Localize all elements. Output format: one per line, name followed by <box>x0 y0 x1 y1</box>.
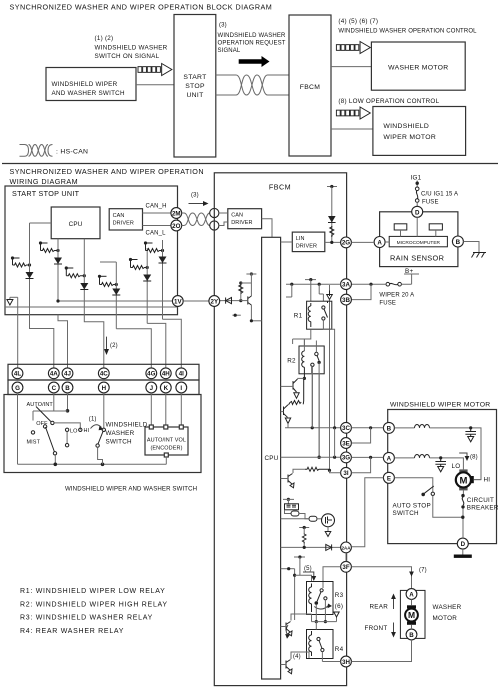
wire cell F jog to 4I <box>163 319 182 367</box>
transistor Q3 <box>281 405 291 428</box>
pin A <box>374 237 385 248</box>
svg-text:G: G <box>15 385 20 392</box>
wire CPU pin to cell A <box>30 222 52 224</box>
connector pin 3E <box>341 438 352 449</box>
washer switch curved arrow <box>91 425 102 429</box>
svg-text:UNIT: UNIT <box>186 92 203 99</box>
svg-text:FRONT: FRONT <box>365 625 388 632</box>
svg-text:B: B <box>409 632 414 639</box>
pin B <box>62 382 73 393</box>
svg-text:START: START <box>183 74 206 81</box>
block FBCM <box>289 15 331 156</box>
wire FBCM to windshield wiper motor <box>331 128 373 130</box>
actuation arrow R4 <box>336 616 338 622</box>
R1 feed rails <box>286 283 341 285</box>
twisted pair 2M/2O to FBCM <box>182 213 210 226</box>
connector pin 3I <box>341 467 352 478</box>
wiper switch node dot <box>66 409 70 413</box>
svg-text:WINDSHIELD WASHER: WINDSHIELD WASHER <box>95 45 168 52</box>
wire 3C to B <box>351 427 383 429</box>
connector pin 3B <box>341 294 352 305</box>
vertical 3C-3G link <box>334 428 336 457</box>
connector pin 3F <box>341 561 352 572</box>
wire D to microcomputer <box>416 217 418 236</box>
block start stop unit <box>174 15 216 158</box>
svg-text:4J: 4J <box>64 371 71 378</box>
lever auto/int <box>36 407 51 422</box>
svg-text:AUTO STOP: AUTO STOP <box>393 502 431 509</box>
wire FBCM pins to CAN driver <box>219 213 228 226</box>
wire CAN_L <box>143 225 172 227</box>
wire 3H to R4 <box>322 661 340 663</box>
svg-text:(4): (4) <box>293 654 301 660</box>
svg-text:E: E <box>387 475 391 482</box>
wire cell B jog to 4J <box>58 315 68 368</box>
internal bus rail <box>5 306 178 308</box>
pin K <box>160 382 171 393</box>
wire E to auto stop switch <box>394 478 432 492</box>
pin J <box>146 382 157 393</box>
connector pin 2O <box>171 220 182 231</box>
resistor to Q4 <box>328 469 331 472</box>
wire washer pivot to bus <box>98 447 103 464</box>
connector pin 3C <box>341 422 352 433</box>
wire FBCM to washer motor <box>331 66 371 68</box>
wire R2 contact to 3C rail <box>311 367 313 428</box>
svg-text:DRIVER: DRIVER <box>231 220 252 226</box>
wire CPU to LIN driver <box>281 241 293 243</box>
contact AUTO/INT <box>51 421 54 424</box>
feed verticals from CPU area <box>294 556 305 558</box>
svg-text:2AA: 2AA <box>342 545 352 550</box>
pin 4C <box>98 368 109 379</box>
internal signal-ground arrow <box>7 297 18 367</box>
pin E <box>383 472 394 483</box>
wire cell D jog to 4G <box>116 329 151 368</box>
svg-text:WIRING DIAGRAM: WIRING DIAGRAM <box>10 177 79 186</box>
svg-text:R2: WINDSHIELD WIPER HIGH RELA: R2: WINDSHIELD WIPER HIGH RELAY <box>20 601 168 608</box>
wire Q3 to 3C rail <box>285 427 341 429</box>
solid request arrow <box>239 56 270 67</box>
pin D <box>457 538 468 549</box>
relay R1 <box>294 301 332 329</box>
svg-text:CPU: CPU <box>69 221 83 228</box>
svg-text:3I: 3I <box>343 470 348 477</box>
svg-text:2O: 2O <box>172 223 180 230</box>
pin D <box>412 206 423 217</box>
pin C <box>48 382 59 393</box>
svg-text:MOTOR: MOTOR <box>433 615 458 622</box>
svg-text:DRIVER: DRIVER <box>296 244 317 250</box>
pin 4I <box>176 368 187 379</box>
twisted pair wires start stop unit to FBCM <box>216 75 289 95</box>
wire 3B up to 3A rail <box>351 284 371 299</box>
main wiper lever <box>46 427 55 452</box>
pull-up cell E (resistor + diode) <box>129 248 151 323</box>
HS-CAN legend symbol <box>20 145 53 157</box>
svg-text:WIPER MOTOR: WIPER MOTOR <box>383 134 436 141</box>
hatched signal arrow 2 <box>336 42 370 54</box>
wire J down to encoder <box>150 393 152 427</box>
wire 3F to washer A with (7) arrow <box>351 567 411 589</box>
encoder pin squares <box>149 425 153 429</box>
svg-text:FUSE: FUSE <box>379 300 396 306</box>
svg-text:2Y: 2Y <box>211 298 219 305</box>
block windshield wiper motor <box>373 107 466 156</box>
svg-text:D: D <box>415 209 420 216</box>
bottom bus <box>18 463 167 465</box>
R1 actuation arrow <box>329 291 331 297</box>
wire 3I up <box>351 457 370 472</box>
diode K1 at 2Y <box>220 298 239 304</box>
svg-text:4A: 4A <box>50 371 58 378</box>
svg-text:AND WASHER SWITCH: AND WASHER SWITCH <box>52 90 125 97</box>
svg-text:4I: 4I <box>179 371 184 378</box>
svg-text:R1: WINDSHIELD WIPER LOW RELAY: R1: WINDSHIELD WIPER LOW RELAY <box>20 588 166 595</box>
wire 3G to A <box>351 456 383 458</box>
svg-text:BREAKER: BREAKER <box>467 505 499 512</box>
svg-text:1V: 1V <box>174 298 182 305</box>
svg-text:CAN: CAN <box>231 213 243 219</box>
svg-text:FBCM: FBCM <box>300 84 320 91</box>
wire lever bus <box>54 423 80 430</box>
start stop unit box <box>5 186 178 315</box>
svg-text:WINDSHIELD WIPER AND WASHER SW: WINDSHIELD WIPER AND WASHER SWITCH <box>65 486 197 493</box>
connector strip unit side <box>8 364 199 380</box>
pull-up cell F (resistor + diode) <box>144 240 167 319</box>
svg-text:(7): (7) <box>419 567 427 573</box>
transistor Q2 (R2 coil driver) <box>281 377 306 399</box>
svg-text:3F: 3F <box>342 564 349 571</box>
svg-text:R2: R2 <box>287 357 296 364</box>
auto stop switch <box>421 486 462 517</box>
ground (rain sensor) <box>472 253 487 258</box>
svg-text:4C: 4C <box>100 371 108 378</box>
svg-text:(4) (5) (6) (7): (4) (5) (6) (7) <box>338 18 378 25</box>
pin G <box>12 382 23 393</box>
svg-text:4L: 4L <box>14 371 21 378</box>
svg-text:(1) (2): (1) (2) <box>95 35 114 42</box>
washer motor bracket <box>400 590 425 638</box>
wire G down to bus <box>17 393 19 464</box>
svg-text:K: K <box>164 385 169 392</box>
svg-text:WINDSHIELD WASHER: WINDSHIELD WASHER <box>218 33 287 39</box>
pin 4G <box>146 368 157 379</box>
svg-text:M: M <box>408 610 415 620</box>
svg-text:CAN_L: CAN_L <box>146 231 167 237</box>
svg-text:R4: REAR WASHER RELAY: R4: REAR WASHER RELAY <box>20 628 124 635</box>
wires below R3 <box>316 600 325 622</box>
wiper motor box <box>388 410 497 544</box>
svg-text:J: J <box>150 385 154 392</box>
pin B <box>383 422 394 433</box>
pin 4L <box>12 368 23 379</box>
svg-text:SWITCH: SWITCH <box>393 510 420 517</box>
wire B to ground <box>463 242 479 253</box>
svg-text:AUTO/INT VOL: AUTO/INT VOL <box>147 437 186 443</box>
wire 3A to fuse to B+ <box>351 283 411 285</box>
wire LO down contact <box>66 432 68 444</box>
svg-text:LO: LO <box>70 428 78 434</box>
svg-text:CAN_H: CAN_H <box>146 204 167 210</box>
svg-text:(2): (2) <box>110 343 118 349</box>
svg-text:4H: 4H <box>162 371 170 378</box>
inductor on A <box>394 457 414 459</box>
svg-text:SWITCH ON SIGNAL: SWITCH ON SIGNAL <box>95 53 160 60</box>
svg-text:WINDSHIELD WIPER: WINDSHIELD WIPER <box>52 81 118 88</box>
svg-text:SIGNAL: SIGNAL <box>218 48 241 54</box>
svg-text:(1): (1) <box>89 417 97 423</box>
svg-text:B: B <box>456 239 461 246</box>
connector pin 3H <box>341 656 352 667</box>
washer pin A <box>406 589 417 600</box>
svg-text:WINDSHIELD WASHER OPERATION C: WINDSHIELD WASHER OPERATION CONTROL <box>338 28 477 34</box>
pin H <box>98 382 109 393</box>
circuit breaker <box>461 490 465 538</box>
svg-text:(3): (3) <box>191 193 199 199</box>
relay R2 <box>287 339 324 378</box>
svg-text:CIRCUIT: CIRCUIT <box>467 497 494 504</box>
CAN driver box (FBCM side) <box>228 209 262 229</box>
wire cell C jog to 4C <box>84 315 104 368</box>
svg-text:(8): (8) <box>470 454 478 460</box>
pull-up cell D (resistor + diode) <box>98 262 120 329</box>
wire washer B to 3H <box>351 640 411 662</box>
svg-text:M: M <box>459 475 467 486</box>
connector pin 2M <box>171 208 182 219</box>
svg-text:IG1: IG1 <box>411 175 422 182</box>
svg-text:SYNCHRONIZED WASHER AND WIPER: SYNCHRONIZED WASHER AND WIPER OPERATION … <box>10 3 273 12</box>
washer switch contact <box>102 428 105 431</box>
internal supply branch (diode+resistor) <box>327 185 337 244</box>
svg-text:R3: WINDSHIELD WASHER RELAY: R3: WINDSHIELD WASHER RELAY <box>20 615 153 622</box>
connector pin 2Y <box>209 296 220 307</box>
wire H down to washer switch <box>103 393 105 428</box>
svg-text:OPERATION REQUEST: OPERATION REQUEST <box>218 41 286 47</box>
wire C down <box>53 393 55 411</box>
contact HI <box>79 428 82 431</box>
CPU U1 box <box>51 207 100 239</box>
label (2) arrow down <box>104 337 109 355</box>
wire R2 contact to 3C rail <box>311 365 314 428</box>
transistor Q6 (washer driver) <box>281 652 309 674</box>
wire 3F to R3 contact <box>323 567 341 588</box>
wire E to 2AA <box>351 478 383 547</box>
svg-text:FBCM: FBCM <box>269 183 291 192</box>
CAN driver box (unit side) <box>109 209 142 230</box>
svg-text:DRIVER: DRIVER <box>113 221 134 227</box>
wire I down to encoder <box>180 393 182 427</box>
svg-text:WASHER MOTOR: WASHER MOTOR <box>388 65 448 72</box>
LIN driver box <box>292 232 325 252</box>
wire CPU to 3G rail <box>281 456 341 458</box>
svg-text:MIST: MIST <box>27 440 41 446</box>
svg-text:STOP: STOP <box>185 83 205 90</box>
connector pin 2G <box>341 237 352 248</box>
fuse C/U IG1 15A <box>415 187 419 202</box>
svg-text:SWITCH: SWITCH <box>106 439 133 446</box>
wire 1V to 2Y <box>183 300 209 302</box>
washer pin B <box>406 629 417 640</box>
svg-text:R1: R1 <box>294 312 303 319</box>
svg-text:FUSE: FUSE <box>422 199 439 205</box>
svg-text:B: B <box>65 385 70 392</box>
wire A to microcomputer <box>385 241 389 243</box>
connector pin 3G <box>341 452 352 463</box>
svg-text:D: D <box>461 541 466 548</box>
connector pin 3A <box>341 279 352 290</box>
wire B down <box>67 393 69 411</box>
svg-text:2M: 2M <box>172 210 181 217</box>
CPU tall box <box>262 237 281 679</box>
svg-text:R3: R3 <box>335 592 344 599</box>
svg-text:CPU: CPU <box>265 455 279 462</box>
svg-text:LO: LO <box>452 463 461 470</box>
switch box <box>4 395 201 473</box>
svg-text:3A: 3A <box>342 282 350 289</box>
svg-text:HI: HI <box>484 477 491 484</box>
svg-text:3H: 3H <box>342 659 350 666</box>
separator line <box>2 163 498 165</box>
pull-up cell B (resistor + diode) <box>39 239 62 301</box>
IC driver block <box>281 498 322 522</box>
pin 4J <box>62 368 73 379</box>
relay R3 <box>307 582 344 615</box>
transistor Q1 near 2Y <box>232 272 261 322</box>
svg-text:A: A <box>387 455 392 462</box>
svg-text:A: A <box>377 240 382 247</box>
svg-text:WINDSHIELD WIPER MOTOR: WINDSHIELD WIPER MOTOR <box>390 401 491 408</box>
hatched signal arrow 1 <box>138 64 172 76</box>
pin B <box>452 236 463 247</box>
wire lever pivot to bus <box>54 455 56 464</box>
svg-text:WASHER: WASHER <box>433 604 462 611</box>
resistor Q4 base <box>305 467 329 471</box>
pin I <box>176 382 187 393</box>
FBCM pin circle (CAN_L) <box>210 221 219 230</box>
wires below R1 <box>293 329 311 346</box>
wiper motor M <box>456 469 481 490</box>
fuse WIPER 20A <box>386 282 401 286</box>
svg-text:CAN: CAN <box>113 213 125 219</box>
relay R4 <box>307 630 344 659</box>
svg-text:3E: 3E <box>342 440 350 447</box>
svg-text:START STOP UNIT: START STOP UNIT <box>12 189 80 198</box>
svg-text:LIN: LIN <box>296 236 305 242</box>
svg-text:I: I <box>180 385 182 392</box>
transistor Q4 <box>281 469 305 488</box>
wire 3I to link <box>330 470 341 472</box>
svg-text:REAR: REAR <box>370 603 389 610</box>
microcomputer box <box>389 236 447 246</box>
pull-up cell C (resistor + diode) <box>65 239 89 315</box>
svg-text:AUTO/INT: AUTO/INT <box>27 402 54 408</box>
wire LIN driver to 2G <box>325 241 341 243</box>
FBCM pin circle (CAN_H) <box>210 208 219 217</box>
svg-text:: HS-CAN: : HS-CAN <box>56 149 88 156</box>
wire CAN driver to CPU <box>262 219 272 238</box>
block windshield wiper and washer switch <box>46 68 136 101</box>
pull-up cell A (resistor + diode) <box>11 223 34 315</box>
svg-text:(8) LOW OPERATION CONTROL: (8) LOW OPERATION CONTROL <box>338 98 439 105</box>
sensor element left <box>394 224 407 230</box>
svg-text:WIPER 20 A: WIPER 20 A <box>379 293 414 299</box>
svg-text:MICROCOMPUTER: MICROCOMPUTER <box>397 240 441 246</box>
FBCM box <box>214 173 346 686</box>
wire CAN_H <box>143 212 172 214</box>
wire R2 contact2 down <box>318 374 320 457</box>
svg-text:SYNCHRONIZED WASHER AND WIPER: SYNCHRONIZED WASHER AND WIPER OPERATION <box>10 167 204 176</box>
resistor pull front washer <box>299 526 309 548</box>
hatched signal arrow 3 <box>336 107 370 119</box>
label (8) arrow <box>459 453 469 461</box>
wiper switch wiring <box>33 411 68 421</box>
connector strip switch side <box>8 380 199 395</box>
pin 4A <box>48 368 59 379</box>
ground below D <box>454 549 472 562</box>
wire encoder to bus <box>165 457 167 464</box>
svg-text:3C: 3C <box>342 425 350 432</box>
connector pin 2AA <box>341 542 352 553</box>
washer motor M <box>405 599 418 629</box>
capacitor+gnd on A line <box>435 460 446 472</box>
svg-text:H: H <box>102 385 107 392</box>
MOSFET Q5 <box>322 514 335 537</box>
pin A <box>383 452 394 463</box>
svg-text:3B: 3B <box>342 297 350 304</box>
svg-text:4G: 4G <box>147 371 155 378</box>
encoder box <box>145 427 188 455</box>
svg-text:WASHER: WASHER <box>106 430 135 437</box>
washer switch lever <box>98 431 103 444</box>
contact LO <box>65 428 68 431</box>
contact MIST <box>31 431 34 434</box>
svg-text:(6): (6) <box>335 603 343 610</box>
svg-text:C/U IG1 15 A: C/U IG1 15 A <box>421 191 458 197</box>
svg-text:WINDSHIELD: WINDSHIELD <box>383 123 429 130</box>
inductor on B <box>394 427 414 429</box>
svg-text:B: B <box>387 425 392 432</box>
wire cell E jog to 4H <box>147 323 166 367</box>
RAIN SENSOR box <box>380 212 458 267</box>
svg-text:2G: 2G <box>342 240 350 247</box>
resistor R2 base-emitter <box>289 378 304 404</box>
capacitor+gnd on B line <box>465 430 476 442</box>
svg-text:(3): (3) <box>219 23 227 29</box>
svg-text:RAIN SENSOR: RAIN SENSOR <box>390 254 444 263</box>
connector pin 1V <box>172 296 183 307</box>
wire 2G to A <box>351 241 374 243</box>
svg-text:R4: R4 <box>335 646 344 653</box>
svg-text:A: A <box>409 591 414 598</box>
block washer motor <box>371 42 465 90</box>
sensor element right <box>429 224 442 230</box>
svg-text:3G: 3G <box>342 455 350 462</box>
transistor Q7 (rear washer driver) <box>281 614 312 636</box>
svg-text:WINDSHIELD: WINDSHIELD <box>106 421 148 428</box>
svg-text:HI: HI <box>84 428 90 434</box>
wire R2 contact2 to 3G rail <box>318 362 320 457</box>
wire 1V rail <box>58 300 172 302</box>
wire switch to start stop unit <box>136 84 174 86</box>
wire CPU to 2AA <box>281 546 341 548</box>
wire K down to encoder <box>165 393 167 427</box>
svg-text:C: C <box>52 385 57 392</box>
wire cell A jog to 4A <box>30 315 54 368</box>
svg-text:(5): (5) <box>304 566 312 572</box>
diode to 2AA <box>326 544 332 550</box>
wire 2AA to 3F <box>345 553 347 562</box>
